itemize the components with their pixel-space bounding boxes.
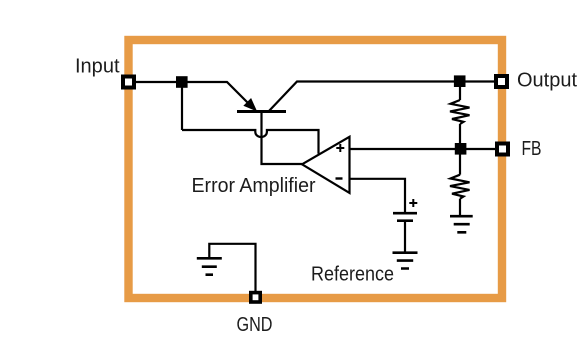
Output pin [496, 76, 507, 87]
wire: GND pin up and over to ground symbol [209, 244, 255, 292]
reference cell plates [393, 212, 417, 215]
wire: FB node down to resistor R2 [459, 149, 461, 175]
op-amp U1 (error amplifier triangle) [302, 137, 350, 193]
ground (feedback divider) [450, 216, 473, 232]
wire: transistor Q1 collector to Output [269, 82, 495, 112]
transistor Q1 emitter arrowhead [244, 99, 256, 110]
resistor R2 [450, 175, 470, 199]
output node junction [454, 75, 466, 87]
wire: op-amp output up to transistor base [262, 112, 303, 165]
svg-text:FB: FB [522, 138, 542, 160]
wire: reference cell to ground [404, 222, 406, 252]
op-amp + input marker [336, 144, 344, 152]
svg-text:GND: GND [237, 314, 273, 336]
wire: op-amp + input to FB node [350, 148, 461, 150]
wire: op-amp - input to reference [350, 179, 406, 212]
svg-text:Input: Input [75, 55, 120, 77]
wire: FB node to FB pin [460, 148, 497, 150]
wire: node A down to error-amp input rail [181, 82, 183, 130]
reference cell + marker [409, 199, 417, 207]
GND pin [251, 293, 260, 302]
wire: rail with hop under base line, to op-amp top edge [182, 130, 319, 154]
svg-text:Error Amplifier: Error Amplifier [192, 175, 316, 197]
transistor Q1 base bar [237, 110, 286, 113]
FB pin [497, 144, 508, 155]
wire: resistor R1 to FB node [459, 124, 461, 149]
FB node junction [455, 143, 467, 155]
wire: output node down to resistor R1 [459, 82, 461, 100]
ground (reference) [393, 253, 418, 269]
resistor R1 [450, 100, 470, 124]
wire: Input pin to node A [133, 81, 182, 83]
ground (GND pin) [197, 258, 222, 274]
node A junction [176, 76, 188, 88]
svg-text:Output: Output [517, 70, 577, 92]
svg-text:Reference: Reference [311, 263, 394, 285]
wire: node A to transistor Q1 emitter [182, 82, 251, 106]
wire: resistor R2 to ground [459, 199, 461, 215]
Input pin [123, 77, 134, 88]
op-amp - input marker [336, 177, 343, 179]
IC boundary (orange box) [129, 40, 503, 298]
